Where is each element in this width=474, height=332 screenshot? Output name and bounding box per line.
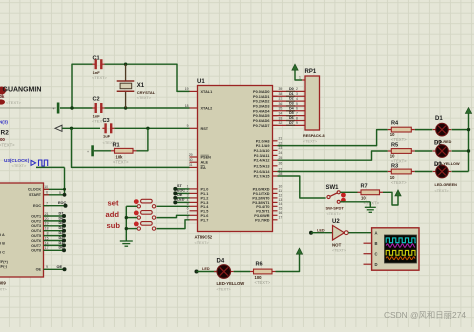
- wire RST left: [62, 127, 100, 129]
- svg-text:EF(+): EF(+): [0, 260, 9, 264]
- svg-text:D2: D2: [434, 140, 442, 146]
- svg-text:3: 3: [296, 92, 298, 96]
- svg-text:P2.3/A11: P2.3/A11: [254, 154, 270, 158]
- svg-text:39: 39: [279, 87, 283, 91]
- svg-text:D2: D2: [289, 97, 294, 101]
- node C1/C2 junction: [70, 106, 73, 109]
- svg-text:P1.7: P1.7: [201, 218, 209, 222]
- svg-text:P1.6: P1.6: [201, 214, 209, 218]
- svg-text:<TEXT>: <TEXT>: [255, 280, 271, 285]
- wire ADC START pin: [44, 194, 65, 196]
- svg-text:R7: R7: [361, 183, 368, 189]
- svg-text:23: 23: [279, 146, 283, 150]
- wire OUT5 / node D3 net: [44, 231, 67, 238]
- svg-text:P1.1: P1.1: [201, 192, 209, 196]
- svg-text:P1.4: P1.4: [201, 205, 210, 209]
- svg-text:AT89C52: AT89C52: [195, 235, 213, 240]
- svg-text:37: 37: [279, 97, 283, 101]
- svg-text:D C: D C: [0, 250, 5, 254]
- resistor R7: [358, 183, 384, 205]
- wire OUT2 / node D6 net: [44, 216, 67, 223]
- svg-text:XTAL2: XTAL2: [201, 107, 213, 111]
- ground (R7/SW1): [365, 207, 376, 212]
- wire P0.1 to RP1 / net D1: [273, 92, 306, 97]
- svg-text:D A: D A: [0, 233, 5, 237]
- svg-text:19: 19: [185, 87, 189, 91]
- resistor R3: [388, 164, 415, 185]
- resistor R1: [111, 143, 137, 165]
- svg-text:3: 3: [187, 194, 189, 198]
- adc U3 ADC0809 (clipped at left edge): [0, 183, 49, 292]
- svg-text:RP1: RP1: [305, 69, 317, 75]
- svg-text:5: 5: [296, 102, 298, 106]
- capacitor C2: [92, 96, 108, 123]
- svg-text:33: 33: [279, 116, 283, 120]
- svg-text:15: 15: [279, 207, 283, 211]
- svg-text:<TEXT>: <TEXT>: [92, 75, 108, 80]
- wire OUT4 / node D4 net: [44, 226, 67, 233]
- wire P2.1 to R4: [278, 130, 388, 146]
- svg-text:36: 36: [279, 102, 283, 106]
- wire C2 left to 0V bar: [60, 107, 93, 109]
- node clock junction: [63, 188, 66, 191]
- svg-text:<TEXT>: <TEXT>: [0, 143, 15, 148]
- svg-text:16: 16: [279, 211, 283, 215]
- svg-text:CLOCK: CLOCK: [28, 188, 41, 192]
- wire LED supply rail: [452, 116, 471, 172]
- svg-text:RESPACK-8: RESPACK-8: [303, 134, 325, 138]
- wire clock output: [36, 166, 65, 168]
- svg-text:GUANGMIN: GUANGMIN: [3, 87, 42, 94]
- svg-text:8: 8: [187, 216, 189, 220]
- svg-text:P0.6/AD6: P0.6/AD6: [253, 119, 269, 123]
- node RST-R1 junction: [70, 127, 73, 130]
- svg-text:21: 21: [279, 137, 283, 141]
- svg-text:R3: R3: [391, 164, 398, 170]
- svg-text:8: 8: [296, 116, 298, 120]
- svg-text:C2: C2: [93, 96, 100, 102]
- led D1 LED-RED: [433, 116, 452, 144]
- led D4 LED-YELLOW: [214, 258, 244, 291]
- svg-text:OUT5: OUT5: [31, 234, 41, 238]
- wire SW1 lower contact to ground: [340, 202, 370, 208]
- svg-text:D7: D7: [289, 121, 294, 125]
- svg-text:<TEXT>: <TEXT>: [195, 241, 210, 245]
- oscilloscope traces: [386, 238, 416, 260]
- wire OE net: [44, 265, 67, 271]
- wire EOC net: [44, 201, 68, 208]
- svg-text:25: 25: [279, 156, 283, 160]
- svg-text:SW1: SW1: [326, 185, 340, 191]
- svg-text:CRYSTAL: CRYSTAL: [137, 90, 156, 95]
- wire RST net to EA: [72, 128, 190, 167]
- resistor R6: [250, 261, 276, 285]
- svg-text:<TEXT>: <TEXT>: [332, 249, 347, 253]
- svg-text:18: 18: [185, 104, 189, 108]
- wire OUT7 / node D1 net: [44, 241, 67, 248]
- svg-text:<TEXT>: <TEXT>: [435, 189, 450, 193]
- svg-text:1nF: 1nF: [93, 113, 101, 118]
- svg-text:17: 17: [279, 216, 283, 220]
- svg-text:SW-SPDT: SW-SPDT: [326, 205, 345, 210]
- power arrow (R6): [296, 248, 302, 256]
- svg-text:R6: R6: [256, 261, 263, 267]
- crystal X1: [117, 64, 156, 108]
- wire buttons ground rail: [125, 206, 138, 241]
- svg-text:+: +: [87, 150, 89, 154]
- svg-text:<TEXT>: <TEXT>: [137, 96, 152, 100]
- svg-text:OE: OE: [177, 193, 183, 197]
- svg-text:set: set: [108, 199, 119, 208]
- node crystal bottom: [124, 106, 127, 109]
- svg-text:NOT: NOT: [332, 242, 342, 247]
- svg-text:12: 12: [279, 194, 283, 198]
- led D2 LED-YELLOW: [433, 140, 460, 166]
- svg-text:ALE: ALE: [201, 161, 209, 165]
- wire P2.4 to R5: [278, 151, 388, 160]
- oscilloscope: [364, 228, 420, 270]
- wire P0.4 to RP1 / net D4: [273, 106, 306, 111]
- svg-text:1uF: 1uF: [103, 133, 111, 138]
- svg-text:<TEXT>: <TEXT>: [364, 200, 380, 205]
- wire C1 right to XTAL1: [105, 64, 190, 91]
- svg-text:A: A: [375, 230, 378, 235]
- svg-text:2: 2: [187, 189, 189, 193]
- svg-text:100: 100: [0, 137, 5, 142]
- svg-text:OUT7: OUT7: [31, 244, 41, 248]
- svg-text:P1.5: P1.5: [201, 209, 209, 213]
- wire OUT3 / node D5 net: [44, 221, 67, 228]
- svg-text:P2.4/A12: P2.4/A12: [254, 159, 270, 163]
- input flag (RST net): [55, 125, 62, 131]
- svg-text:R2: R2: [1, 129, 10, 136]
- svg-text:P0.5/AD5: P0.5/AD5: [253, 114, 269, 118]
- wire OUT8 / node D0 net: [44, 246, 67, 253]
- svg-text:C3: C3: [103, 118, 110, 124]
- svg-text:35: 35: [279, 107, 283, 111]
- svg-text:P0.2/AD2: P0.2/AD2: [253, 100, 269, 104]
- svg-text:14: 14: [279, 202, 283, 206]
- svg-text:OE: OE: [57, 265, 63, 269]
- svg-text:EOC: EOC: [33, 204, 41, 208]
- svg-text:D3: D3: [434, 162, 442, 168]
- wire P0.3 to RP1 / net D3: [273, 101, 306, 106]
- svg-text:D: D: [375, 262, 378, 267]
- wire R4 to D1: [415, 129, 433, 131]
- svg-text:38: 38: [279, 92, 283, 96]
- node crystal top: [124, 62, 127, 65]
- svg-text:LED: LED: [202, 267, 210, 271]
- mcu U1 AT89C52: [185, 79, 283, 245]
- svg-text:9: 9: [296, 121, 298, 125]
- svg-text:27: 27: [279, 167, 283, 171]
- svg-text:START: START: [29, 193, 42, 197]
- resistor pack RP1 RESPACK-8: [299, 69, 325, 144]
- svg-text:7: 7: [187, 211, 189, 215]
- svg-text:R4: R4: [391, 121, 399, 127]
- svg-text:R1: R1: [113, 143, 120, 149]
- svg-text:34: 34: [279, 111, 283, 115]
- svg-text:4: 4: [296, 97, 298, 101]
- svg-text:D6: D6: [289, 116, 294, 120]
- svg-text:D1: D1: [435, 116, 443, 122]
- svg-text:RST: RST: [201, 127, 209, 131]
- ground (buttons): [120, 241, 133, 246]
- wire set button to P1.4: [157, 205, 190, 207]
- wire R5 to D2: [415, 150, 433, 152]
- svg-text:P3.7/RD: P3.7/RD: [255, 218, 270, 222]
- svg-text:OE: OE: [36, 268, 42, 272]
- net label GUANGMIN(3) (clipped): [0, 120, 8, 125]
- svg-text:D3: D3: [289, 101, 294, 105]
- svg-text:P2.7/A15: P2.7/A15: [254, 175, 270, 179]
- wire sub button to P1.7: [157, 220, 190, 229]
- svg-text:<TEXT>: <TEXT>: [327, 212, 342, 216]
- svg-text:D B: D B: [0, 242, 5, 246]
- svg-text:XTAL1: XTAL1: [201, 90, 213, 94]
- wire OUT1 / node D7 net: [44, 211, 67, 218]
- wire RST down to R1: [137, 128, 148, 151]
- svg-text:1: 1: [187, 185, 189, 189]
- svg-text:P3.2/INT0: P3.2/INT0: [252, 196, 269, 200]
- svg-text:R5: R5: [391, 142, 398, 148]
- svg-text:P2.6/A14: P2.6/A14: [254, 170, 271, 174]
- svg-text:+: +: [53, 107, 55, 111]
- svg-text:P1.0: P1.0: [201, 187, 209, 191]
- svg-text:24: 24: [279, 151, 283, 155]
- svg-text:EOC: EOC: [177, 189, 185, 193]
- svg-text:C: C: [375, 251, 378, 256]
- wire P1 net LED: [173, 198, 189, 205]
- not gate U2: [332, 219, 348, 253]
- svg-text:<TEXT>: <TEXT>: [113, 160, 129, 165]
- node RST junction right: [146, 127, 149, 130]
- wire R7 to power arrow: [383, 192, 398, 205]
- svg-text:P2.5/A13: P2.5/A13: [254, 164, 270, 168]
- wire LED net to U2 input: [309, 228, 333, 234]
- wire P0.7 to RP1 / net D7: [273, 121, 306, 126]
- power arrow (LED rail): [465, 108, 471, 117]
- svg-text:5: 5: [59, 191, 61, 195]
- svg-text:P1.2: P1.2: [201, 196, 209, 200]
- svg-text:C1: C1: [93, 55, 100, 61]
- svg-text:EF(-): EF(-): [0, 265, 8, 269]
- capacitor C3: [102, 118, 118, 145]
- svg-text:<TEXT>: <TEXT>: [391, 180, 407, 185]
- svg-text:9: 9: [187, 124, 189, 128]
- svg-text:sub: sub: [107, 221, 121, 230]
- wire C1 left to ground rail: [72, 64, 93, 108]
- svg-text:CSDN @风和日丽274: CSDN @风和日丽274: [384, 310, 466, 320]
- svg-text:6: 6: [187, 207, 189, 211]
- clock generator U3(CLOCK): [4, 158, 48, 168]
- svg-text:OUT4: OUT4: [31, 229, 42, 233]
- svg-text:<TEXT>: <TEXT>: [0, 287, 8, 292]
- wire P0.6 to RP1 / net D6: [273, 116, 306, 121]
- svg-text:ST: ST: [177, 184, 182, 188]
- wire P0.5 to RP1 / net D5: [273, 111, 306, 116]
- svg-text:<TEXT>: <TEXT>: [6, 100, 22, 105]
- svg-text:<TEXT>: <TEXT>: [303, 140, 318, 144]
- svg-text:<TEXT>: <TEXT>: [391, 137, 407, 142]
- svg-text:LED-YELLOW: LED-YELLOW: [217, 281, 245, 286]
- wire P2.6 to R3: [278, 171, 388, 173]
- push button "sub": [107, 221, 156, 231]
- svg-text:P2.2/A10: P2.2/A10: [254, 149, 270, 153]
- svg-text:6: 6: [296, 107, 298, 111]
- svg-text:LED: LED: [317, 228, 325, 232]
- svg-text:EA: EA: [201, 166, 207, 170]
- svg-text:D5: D5: [289, 111, 294, 115]
- ground 0V bar (R1): [87, 145, 111, 156]
- wire SW1 to R7: [340, 191, 357, 193]
- wire P1 net ST: [173, 184, 189, 191]
- svg-text:D0: D0: [289, 87, 294, 91]
- wire R3 to D3: [415, 171, 433, 173]
- wire P0.0 to RP1 / net D0: [273, 87, 306, 92]
- svg-text:10: 10: [279, 185, 283, 189]
- wire P1 net OE: [173, 193, 189, 200]
- svg-text:U2: U2: [332, 219, 340, 225]
- svg-text:11: 11: [279, 189, 283, 193]
- wire P2.7 to SW1: [278, 176, 326, 198]
- push button "set": [108, 199, 156, 209]
- svg-text:U1: U1: [197, 79, 205, 85]
- svg-text:D1: D1: [289, 92, 294, 96]
- svg-text:OUT1: OUT1: [31, 214, 41, 218]
- led D3 LED-GREEN: [433, 162, 457, 193]
- svg-text:6: 6: [46, 191, 48, 195]
- svg-text:NGMIN(3): NGMIN(3): [0, 120, 8, 125]
- svg-text:D4: D4: [217, 258, 225, 264]
- svg-text:P0.7/AD7: P0.7/AD7: [253, 124, 269, 128]
- svg-text:10k: 10k: [0, 94, 5, 99]
- resistor R2 (clipped at left edge): [0, 129, 15, 147]
- potentiometer GUANGMIN (clipped at left edge): [0, 87, 56, 109]
- svg-text:P2.0/A8: P2.0/A8: [256, 139, 270, 143]
- svg-text:P2.1/A9: P2.1/A9: [256, 144, 270, 148]
- svg-text:add: add: [106, 210, 120, 219]
- svg-text:ADC0809: ADC0809: [0, 281, 6, 286]
- svg-text:32: 32: [279, 121, 283, 125]
- svg-text:P3.1/TXD: P3.1/TXD: [253, 192, 270, 196]
- svg-text:2: 2: [296, 87, 298, 91]
- svg-text:30: 30: [189, 158, 193, 162]
- svg-text:<TEXT>: <TEXT>: [217, 288, 232, 292]
- capacitor C1: [92, 55, 108, 80]
- svg-text:28: 28: [279, 172, 283, 176]
- svg-text:OUT2: OUT2: [31, 219, 41, 223]
- wire C2 right to XTAL2: [105, 107, 190, 109]
- svg-text:P3.6/WR: P3.6/WR: [254, 214, 269, 218]
- svg-text:10: 10: [44, 185, 48, 189]
- svg-text:LED-GREEN: LED-GREEN: [435, 183, 458, 187]
- resistor R4: [388, 121, 415, 142]
- svg-text:22: 22: [279, 141, 283, 145]
- resistor R5: [388, 142, 415, 163]
- svg-text:P0.4/AD4: P0.4/AD4: [253, 109, 270, 113]
- svg-text:1nF: 1nF: [93, 70, 101, 75]
- svg-text:X1: X1: [137, 83, 145, 89]
- svg-text:P3.0/RXD: P3.0/RXD: [253, 187, 270, 191]
- power arrow (RP1): [292, 64, 302, 80]
- wire RST right to pin 9: [114, 127, 189, 129]
- svg-text:P0.3/AD3: P0.3/AD3: [253, 104, 269, 108]
- svg-text:7: 7: [296, 111, 298, 115]
- svg-text:PSEN: PSEN: [201, 156, 212, 160]
- svg-text:P0.0/AD0: P0.0/AD0: [253, 90, 269, 94]
- svg-text:OUT8: OUT8: [31, 249, 41, 253]
- svg-text:31: 31: [189, 163, 193, 167]
- svg-text:<TEXT>: <TEXT>: [12, 163, 28, 168]
- switch SW1 SW-SPDT: [326, 185, 346, 216]
- svg-text:1: 1: [299, 76, 301, 80]
- svg-text:OUT3: OUT3: [31, 224, 41, 228]
- wire ADC CLOCK pin: [44, 188, 65, 190]
- svg-text:B: B: [375, 241, 378, 246]
- wire P0.2 to RP1 / net D2: [273, 97, 306, 102]
- svg-text:P3.5/T1: P3.5/T1: [256, 209, 269, 213]
- svg-text:OUT6: OUT6: [31, 239, 41, 243]
- svg-text:P3.4/T0: P3.4/T0: [256, 205, 269, 209]
- node START junction: [59, 191, 66, 197]
- power arrow (R7): [395, 190, 401, 196]
- wire P1 net EOC: [173, 189, 189, 196]
- ground 0V bar (oscillator): [53, 103, 60, 114]
- wire add button to P1.6: [157, 215, 190, 217]
- svg-text:LED: LED: [177, 198, 185, 202]
- wire U2 output to oscilloscope A: [348, 232, 371, 234]
- wire LED net to D4: [195, 267, 217, 274]
- wire OUT6 / node D2 net: [44, 236, 67, 243]
- wire clock vertical to CLOCK/START: [64, 167, 66, 194]
- svg-text:26: 26: [279, 162, 283, 166]
- wire D4 to R6: [234, 271, 250, 273]
- svg-text:29: 29: [189, 153, 193, 157]
- push button "add": [106, 210, 156, 220]
- svg-text:P0.1/AD1: P0.1/AD1: [253, 95, 269, 99]
- wire R6 to power arrow: [276, 256, 300, 271]
